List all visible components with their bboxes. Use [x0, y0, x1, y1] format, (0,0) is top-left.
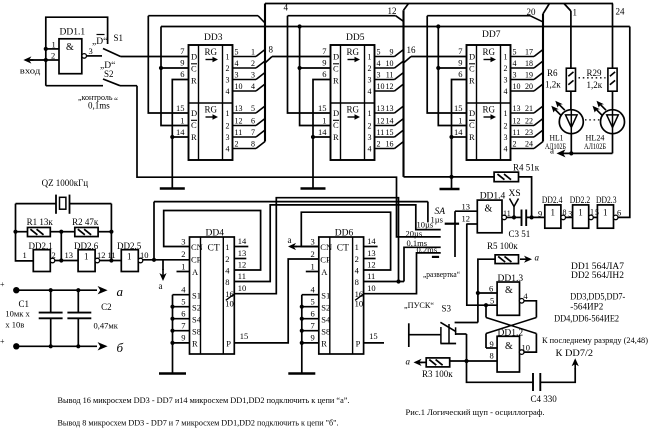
svg-text:13: 13 [513, 104, 521, 113]
svg-text:-564ИР2: -564ИР2 [570, 302, 603, 312]
label 0.1ms [407, 238, 428, 248]
svg-text:1: 1 [127, 252, 132, 262]
svg-text:C: C [191, 64, 197, 74]
label R4 [513, 163, 540, 173]
svg-text:1: 1 [458, 116, 462, 126]
svg-text:12: 12 [386, 82, 394, 91]
wire DD2.6 out [100, 260, 122, 262]
wire DD2.2 out [590, 208, 599, 218]
svg-text:2: 2 [51, 51, 55, 61]
svg-text:вход: вход [20, 66, 41, 76]
svg-text:14: 14 [318, 127, 327, 137]
label DD2.5 [117, 241, 142, 251]
svg-text:1: 1 [180, 116, 184, 126]
wire D-input DD7 pin15 [427, 16, 466, 113]
svg-text:7: 7 [180, 46, 184, 56]
svg-text:CP: CP [191, 255, 202, 265]
svg-text:R29: R29 [587, 68, 603, 78]
inverter DD2.5 [121, 250, 143, 272]
svg-text:CT: CT [337, 244, 349, 254]
svg-text:АЛ102Б: АЛ102Б [584, 141, 606, 151]
wire S3 to C4 [467, 334, 534, 382]
wire DD2.5 out to DD4 CP [143, 258, 190, 262]
svg-text:CN: CN [191, 242, 203, 252]
svg-text:S1: S1 [321, 291, 330, 301]
svg-text:CT: CT [208, 244, 220, 254]
shift register DD5 [318, 33, 404, 160]
svg-text:1: 1 [226, 53, 230, 62]
label 20 [527, 7, 537, 17]
arrow DD6 CN to rail a [288, 235, 319, 250]
label D-bar [92, 35, 107, 48]
wire channel-8 tap to DD5 pin7 [265, 57, 331, 64]
wire to R29 [612, 4, 614, 69]
svg-text:P: P [356, 339, 361, 349]
label kontrol [78, 92, 113, 102]
wire R4 right [519, 177, 532, 218]
svg-text:13: 13 [65, 250, 74, 260]
svg-text:D: D [191, 52, 197, 62]
svg-text:5: 5 [181, 297, 185, 307]
svg-text:&: & [66, 42, 74, 53]
svg-text:S2: S2 [321, 303, 330, 313]
wire channel-20 line [427, 16, 542, 22]
svg-text:24: 24 [525, 139, 533, 148]
resistor R2 [75, 227, 98, 236]
switch SA rotor [445, 223, 459, 225]
switch S3 [409, 322, 456, 347]
note line 2 [58, 419, 339, 428]
svg-text:2: 2 [52, 250, 56, 260]
label S1 [114, 33, 124, 43]
svg-text:2: 2 [235, 139, 239, 148]
svg-text:R5 100к: R5 100к [487, 241, 518, 251]
svg-text:S4: S4 [321, 315, 331, 325]
svg-text:11: 11 [235, 128, 243, 137]
gate DD1.2 [497, 336, 524, 372]
svg-text:1: 1 [251, 47, 255, 56]
svg-text:13: 13 [238, 248, 247, 258]
label C2 [101, 302, 112, 312]
svg-text:DD5: DD5 [346, 33, 365, 43]
svg-text:DD2.1: DD2.1 [29, 241, 53, 251]
svg-text:3: 3 [377, 70, 381, 79]
svg-text:1: 1 [551, 208, 556, 218]
svg-text:3: 3 [311, 237, 315, 247]
svg-text:20: 20 [527, 7, 537, 17]
wire clock DD7 pins 9,1 [436, 24, 466, 125]
svg-text:9: 9 [322, 58, 326, 68]
rail a [13, 286, 108, 294]
label 11 [503, 209, 511, 218]
dotted line resistors [579, 77, 606, 79]
wire D-input DD3 pin15 [148, 16, 188, 113]
svg-text:DD3: DD3 [204, 33, 223, 43]
svg-text:R: R [192, 339, 198, 349]
svg-text:14: 14 [454, 127, 463, 137]
rail b [13, 342, 108, 350]
svg-text:D: D [469, 52, 475, 62]
svg-text:8: 8 [490, 351, 494, 361]
label SA [435, 207, 446, 217]
svg-text:DD1.4: DD1.4 [480, 192, 506, 202]
svg-text:„ПУСК“: „ПУСК“ [404, 300, 434, 310]
wire control clock line [161, 26, 630, 28]
label HL24 [584, 132, 606, 151]
label K poslednemu [542, 335, 648, 345]
resistor R1 [28, 227, 51, 236]
label vhod [20, 66, 41, 76]
svg-text:0,1ms: 0,1ms [88, 101, 110, 111]
svg-text:10: 10 [377, 82, 385, 91]
label DD1.3 [498, 274, 524, 284]
svg-text:DD3,DD5,DD7-: DD3,DD5,DD7- [570, 292, 625, 302]
wire R5 left [476, 259, 495, 322]
svg-text:15: 15 [454, 103, 463, 113]
wire S1 to DD3 pin7 [121, 56, 189, 58]
svg-text:C2: C2 [101, 302, 112, 312]
svg-text:C: C [191, 120, 197, 130]
svg-text:16: 16 [407, 45, 417, 55]
shift register DD3 [176, 33, 265, 160]
svg-text:&: & [505, 285, 513, 296]
svg-text:8: 8 [563, 208, 567, 217]
bus DD5 outputs [402, 10, 404, 177]
label 20us [406, 229, 423, 239]
capacitor C3 [522, 210, 527, 227]
label DD1 type [571, 261, 625, 271]
wire S3 lower contact [456, 333, 467, 335]
svg-text:12: 12 [97, 250, 106, 260]
svg-text:9: 9 [181, 333, 185, 343]
ground DD3 [160, 187, 185, 190]
wire crystal left [16, 203, 57, 205]
svg-text:14: 14 [367, 236, 376, 246]
svg-text:К DD7/2: К DD7/2 [556, 348, 594, 358]
svg-text:15: 15 [240, 331, 249, 341]
svg-text:2: 2 [226, 122, 230, 131]
svg-text:9: 9 [311, 333, 315, 343]
capacitor C4 [533, 373, 540, 391]
svg-text:4: 4 [284, 3, 289, 13]
svg-text:C4 330: C4 330 [531, 394, 558, 404]
svg-text:5: 5 [377, 47, 381, 56]
svg-text:1: 1 [368, 109, 372, 118]
svg-text:8: 8 [269, 45, 274, 55]
svg-text:R: R [191, 132, 197, 142]
svg-text:3: 3 [89, 46, 93, 56]
svg-text:C: C [469, 64, 475, 74]
wire reset DD5 pins 6,14 to ground [311, 80, 331, 189]
pin 6 DD1.3 [478, 284, 497, 294]
wire S2 kontrol line [137, 86, 441, 237]
bus DD7 outputs [542, 14, 544, 142]
note line 1 [58, 396, 350, 405]
inverter DD2.1 [33, 250, 55, 272]
label 12 [388, 6, 397, 16]
svg-text:4: 4 [355, 266, 360, 276]
svg-text:DD2 564ЛН2: DD2 564ЛН2 [571, 270, 624, 280]
svg-text:DD2.2: DD2.2 [570, 195, 591, 205]
svg-text:К последнему разряду (24,48): К последнему разряду (24,48) [542, 335, 648, 345]
wire DD2.1 out [55, 260, 78, 262]
wire C3 to DD2.4 [526, 209, 545, 220]
svg-text:а: а [159, 281, 163, 291]
wire DD6 out8 line [364, 247, 441, 281]
label DD2.3 [596, 195, 617, 205]
svg-text:11: 11 [238, 271, 246, 281]
svg-text:5: 5 [513, 47, 517, 56]
switch SA pole [432, 211, 455, 257]
pin 12 DD1.4 [462, 214, 478, 225]
svg-text:4: 4 [368, 87, 372, 96]
svg-text:S8: S8 [321, 327, 330, 337]
svg-text:2: 2 [311, 249, 315, 259]
svg-text:2: 2 [504, 64, 508, 73]
svg-text:1: 1 [504, 109, 508, 118]
probe XS [509, 189, 521, 217]
svg-text:а: а [117, 284, 124, 299]
svg-text:12: 12 [462, 214, 471, 224]
svg-text:S1: S1 [192, 291, 201, 301]
label K DD7/2 [556, 348, 594, 358]
svg-text:C: C [333, 64, 339, 74]
svg-text:„развертка“: „развертка“ [423, 269, 460, 279]
svg-text:3: 3 [226, 133, 230, 142]
counter DD6 [288, 229, 377, 374]
wire R4 left line [404, 176, 495, 178]
svg-text:3: 3 [513, 70, 517, 79]
label a big [117, 284, 124, 299]
resistor R6 [566, 68, 575, 91]
svg-text:13: 13 [386, 104, 394, 113]
label razvertka [423, 269, 460, 279]
svg-text:12: 12 [367, 260, 376, 270]
svg-text:6: 6 [322, 69, 326, 79]
wire DD4 P to DD6 CP [234, 259, 319, 343]
svg-text:RG: RG [205, 105, 218, 115]
svg-text:R: R [333, 132, 339, 142]
wire R3 right [450, 359, 469, 363]
svg-text:18: 18 [525, 59, 533, 68]
svg-text:1: 1 [368, 53, 372, 62]
svg-text:7: 7 [251, 128, 255, 137]
svg-text:4: 4 [226, 145, 230, 154]
svg-text:6: 6 [251, 116, 255, 125]
label 1 top [573, 8, 578, 18]
svg-text:9: 9 [538, 209, 542, 219]
svg-text:C: C [333, 120, 339, 130]
wire DD4 feedback loop [164, 211, 261, 271]
svg-text:б: б [117, 340, 124, 355]
svg-text:10: 10 [140, 250, 149, 260]
pin 2 DD1.1 [46, 51, 59, 61]
svg-text:12: 12 [377, 116, 385, 125]
inverter DD2.3 [597, 205, 618, 228]
svg-text:D: D [333, 52, 339, 62]
svg-text:2: 2 [377, 139, 381, 148]
wire left rail vertical [13, 204, 33, 261]
svg-text:14: 14 [238, 236, 247, 246]
label DD2.1 [29, 241, 53, 251]
label DD1.2 [498, 329, 524, 339]
svg-text:CN: CN [320, 242, 332, 252]
svg-text:2: 2 [181, 249, 185, 259]
label DD2.2 [570, 195, 591, 205]
svg-text:R: R [321, 339, 327, 349]
svg-text:QZ 1000кГц: QZ 1000кГц [42, 178, 89, 188]
svg-text:2: 2 [368, 122, 372, 131]
svg-text:RG: RG [483, 47, 496, 57]
wire R2 leads [61, 231, 111, 233]
ground DD7 [440, 188, 460, 191]
label S2 [104, 69, 114, 79]
svg-text:&: & [505, 341, 513, 352]
pin 1 DD1.1 [46, 40, 59, 50]
dotted line LEDs [585, 119, 602, 121]
svg-text:7: 7 [322, 46, 326, 56]
label 0.2ms [417, 245, 438, 255]
svg-text:11: 11 [513, 128, 521, 137]
svg-text:6: 6 [180, 69, 184, 79]
svg-text:19: 19 [525, 70, 533, 79]
svg-text:3: 3 [504, 76, 508, 85]
wire reset DD3 pins 6,14 to ground [170, 80, 188, 189]
label QZ [42, 178, 89, 188]
svg-text:1: 1 [573, 8, 578, 18]
svg-text:3: 3 [568, 210, 572, 219]
svg-text:11: 11 [386, 70, 394, 79]
svg-text:4: 4 [513, 59, 517, 68]
svg-text:4: 4 [504, 145, 508, 154]
svg-text:13: 13 [377, 104, 385, 113]
svg-text:3: 3 [226, 76, 230, 85]
caption [406, 407, 545, 417]
svg-text:15: 15 [176, 103, 185, 113]
wire DD6 feedback loop [301, 212, 390, 270]
label R1 [27, 217, 54, 227]
svg-text:Рис.1 Логический щуп - осцил: Рис.1 Логический щуп - осциллограф. [406, 407, 545, 417]
svg-text:2: 2 [225, 254, 229, 264]
svg-text:12: 12 [235, 116, 243, 125]
inverter DD2.6 [78, 250, 100, 272]
label C1 [19, 299, 30, 309]
svg-text:1: 1 [578, 208, 583, 218]
label 0,1ms [88, 96, 118, 111]
svg-text:P: P [226, 339, 231, 349]
svg-text:13: 13 [367, 248, 376, 258]
svg-text:R: R [469, 76, 475, 86]
inverter DD2.4 [545, 205, 566, 228]
svg-text:3: 3 [504, 133, 508, 142]
svg-text:16: 16 [386, 139, 394, 148]
svg-text:1: 1 [322, 116, 326, 126]
svg-text:13: 13 [235, 104, 243, 113]
label DD2.6 [74, 241, 99, 251]
label S3 [442, 303, 452, 313]
wire reset DD7 pins 6,14 [449, 80, 466, 190]
jog to LED1 wire [564, 4, 571, 12]
svg-text:DD1.2: DD1.2 [498, 329, 524, 339]
svg-text:RG: RG [347, 105, 360, 115]
wire R1 leads [16, 230, 64, 234]
svg-text:4: 4 [251, 82, 255, 91]
ground DD5 [301, 187, 326, 190]
capacitor C1 [39, 290, 63, 346]
svg-text:3: 3 [181, 237, 185, 247]
svg-text:DD1.1: DD1.1 [60, 28, 86, 38]
svg-text:Вывод 16 микросхем DD3 - DD7 и: Вывод 16 микросхем DD3 - DD7 и14 микросх… [58, 396, 350, 405]
wire R5 right arrow a [520, 253, 540, 263]
svg-text:2: 2 [368, 64, 372, 73]
svg-text:8: 8 [251, 139, 255, 148]
svg-text:R: R [333, 76, 339, 86]
svg-text:2: 2 [355, 254, 359, 264]
svg-text:12: 12 [238, 260, 247, 270]
wire R3 left arrow a [406, 357, 427, 367]
svg-text:S3: S3 [442, 303, 452, 313]
svg-text:R6: R6 [547, 68, 558, 78]
arrow to rail a [159, 260, 166, 281]
wire S3 upper contact [455, 322, 478, 324]
pin 13 DD1.4 [455, 202, 477, 212]
svg-text:+: + [0, 280, 5, 289]
svg-text:9: 9 [490, 339, 494, 349]
wire DD4 out16 line [234, 198, 401, 294]
label 4 [284, 3, 289, 13]
switch S2 [46, 79, 137, 86]
svg-text:DD2.3: DD2.3 [596, 195, 617, 205]
label DD4 types [554, 314, 619, 324]
svg-text:R4 51к: R4 51к [513, 163, 540, 173]
svg-text:2: 2 [504, 122, 508, 131]
switch S1 [103, 49, 121, 57]
svg-text:5: 5 [311, 297, 315, 307]
svg-text:DD2.5: DD2.5 [117, 241, 142, 251]
svg-text:10: 10 [367, 283, 376, 293]
label C1 value [5, 309, 30, 330]
input loop wire [44, 17, 108, 86]
counter DD4 [159, 229, 248, 374]
svg-text:1: 1 [504, 53, 508, 62]
top bus line [265, 3, 613, 5]
label R29 [587, 68, 603, 90]
bus DD3 outputs [264, 4, 266, 142]
wire R1R2 junction vertical [59, 232, 63, 263]
label 16 [407, 45, 417, 55]
svg-text:RG: RG [483, 105, 496, 115]
svg-text:5: 5 [251, 104, 255, 113]
latch cross wiring [486, 301, 536, 352]
gate DD1.4 [477, 200, 506, 233]
wire channel-16 tap to DD7 pin7 [404, 57, 467, 64]
svg-text:1,2к: 1,2к [587, 80, 603, 90]
svg-text:7: 7 [458, 46, 462, 56]
svg-text:1: 1 [603, 208, 608, 218]
svg-text:6: 6 [489, 284, 493, 294]
svg-text:DD4,DD6-564ИЕ2: DD4,DD6-564ИЕ2 [554, 314, 619, 324]
svg-text:АЛ102Б: АЛ102Б [545, 141, 566, 151]
wire crystal right [70, 203, 112, 205]
svg-text:&: & [485, 204, 493, 215]
pin 9 DD1.2 [486, 339, 497, 349]
svg-text:2: 2 [251, 59, 255, 68]
svg-text:4: 4 [377, 59, 381, 68]
label 1us [431, 214, 443, 224]
svg-text:5: 5 [235, 47, 239, 56]
resistor R29 [608, 68, 617, 91]
svg-text:+: + [0, 337, 5, 346]
